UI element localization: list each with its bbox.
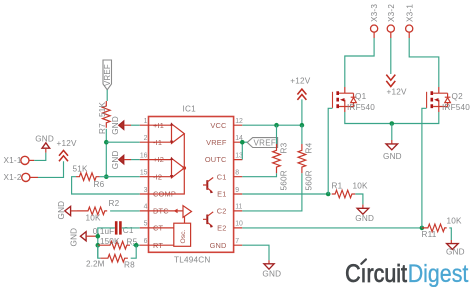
ground GND at R1 [355,205,374,224]
svg-text:10K: 10K [447,216,463,225]
ground GND at X1-1 [35,134,54,152]
svg-text:R1: R1 [332,182,343,191]
junction R4 top / +12V [300,123,305,128]
svg-text:GND: GND [262,270,281,279]
IC U1 TL494CN box [149,105,234,265]
wire X3-2 to +12V [390,38,392,74]
wire X3-1 to Q2 drain [409,38,439,87]
svg-text:560R: 560R [280,170,289,190]
pin numbers right [235,118,243,245]
svg-text:+12V: +12V [387,88,407,97]
wire pin7 GND [242,245,269,260]
svg-text:9: 9 [235,187,239,194]
svg-text:IC1: IC1 [183,105,197,114]
svg-text:R6: R6 [94,180,105,189]
junction R3 top [274,123,279,128]
pin stubs right [234,125,243,245]
transistor T1 (inside IC, C1/E1) [203,178,213,194]
svg-text:51K: 51K [98,101,107,117]
svg-text:GND: GND [35,134,54,143]
wire X1-2 to +12V [38,161,64,177]
pin numbers left [140,118,148,245]
junction R5/R8 left [96,243,101,248]
ground GND at pin1 [111,116,131,135]
svg-text:X1-1: X1-1 [4,156,22,165]
ground GND at R2 [57,201,77,220]
wire C1 right to pin5 CT [122,227,140,229]
svg-text:4: 4 [144,204,148,211]
svg-text:X3-1: X3-1 [405,4,414,22]
wire pin9 E1 row [242,193,328,195]
svg-text:1: 1 [144,118,148,125]
ground GND at pin7 [262,260,281,278]
wire pin2 [106,141,140,143]
DTC comparator (inside IC) [149,206,192,224]
svg-text:7: 7 [235,238,239,245]
op-amp comparator 1 (inside IC) [149,122,185,143]
wire R8 right riser [131,245,137,258]
svg-text:GND: GND [355,214,374,223]
svg-text:X3-3: X3-3 [370,4,379,22]
svg-text:GND: GND [57,201,66,220]
junction pin9 / R1 / gate riser [326,192,331,197]
wire VREF tag to R7 [106,90,108,101]
resistor R3 560R vertical [273,125,289,190]
svg-text:R4: R4 [305,142,314,153]
wire R11 right to GND [449,228,451,240]
svg-text:Cırcuit: Cırcuit [345,259,407,287]
connector X1-1 [4,156,35,165]
svg-text:GND: GND [383,152,402,161]
svg-text:8: 8 [235,170,239,177]
junction node pin2 [104,140,109,145]
svg-text:C1: C1 [217,172,227,181]
wire pin15 [106,176,140,178]
svg-text:GND: GND [210,241,227,250]
wire VCC rail pin12 [242,124,302,126]
svg-text:VREF: VREF [254,139,277,148]
svg-text:GND: GND [70,228,79,247]
svg-text:12: 12 [235,118,243,125]
svg-text:VCC: VCC [210,121,227,130]
svg-text:R7: R7 [98,123,107,134]
wire C1 left to GND column [98,228,115,258]
junction node pin15 / R6 [104,174,109,179]
junction GND stub [96,234,101,239]
svg-text:GND: GND [111,150,120,169]
supply +12V at VCC [290,77,310,100]
svg-text:VREF: VREF [103,64,112,86]
connector X1-2 [4,173,39,182]
net label VREF (left tag) [103,60,112,90]
svg-text:15: 15 [140,170,148,177]
logo CircuitDigest [345,259,469,287]
junction source rail GND [390,121,395,126]
wire GND stub from rail [391,124,393,141]
resistor R6 51K [73,165,105,190]
junction comparator 2 output [183,166,187,170]
wire Q2 gate riser [422,108,427,228]
wire R6 left down to COMP pin3 [72,177,140,194]
svg-text:10: 10 [235,221,243,228]
supply +12V below X3-2 [386,75,407,97]
ground GND at C1/R5/R8 [70,228,98,247]
supply +12V at X1-2 [57,139,77,161]
wire Q1 gate riser [328,108,332,194]
pin names right [205,121,227,250]
connector X3-3 [370,4,379,38]
svg-text:16: 16 [140,152,148,159]
wire R1 right to GND [355,194,363,205]
svg-text:3: 3 [144,187,148,194]
wire R2 to pin4 DTC [110,210,140,212]
svg-text:R2: R2 [109,199,120,208]
wire X3-3 to Q1 drain [345,38,374,87]
transistor T2 (inside IC, C2/E2) [203,212,213,228]
transistor Q2 IRF540 [427,87,471,112]
logo accent over i [361,259,366,263]
svg-text:6: 6 [144,238,148,245]
resistor R11 10K [422,216,463,239]
resistor R4 560R vertical [298,125,313,190]
svg-text:5: 5 [144,221,148,228]
wire pin1 [131,124,140,126]
svg-text:Osc.: Osc. [180,229,187,243]
wire R5 right to pin6 RT [133,244,140,246]
svg-text:R8: R8 [124,260,135,269]
wire R8 left riser [98,245,101,258]
wire pin14 to tag and down to pin13 [242,142,247,159]
junction pin14 [240,140,245,145]
svg-text:VREF: VREF [206,138,227,147]
wire R6 right to junction [100,176,107,178]
svg-text:TL494CN: TL494CN [174,256,210,265]
svg-text:GND: GND [111,116,120,135]
pin stubs left [140,125,149,245]
svg-text:IRF540: IRF540 [347,103,375,112]
wire pin10 E2 row [242,227,422,229]
svg-text:51K: 51K [73,165,89,174]
svg-text:X1-2: X1-2 [4,173,22,182]
svg-text:2: 2 [144,135,148,142]
ground GND below source rail [383,140,402,161]
resistor R2 10K [77,199,120,222]
wire +12V riser [301,99,303,125]
junction pin10 / R11 / Q2 gate riser [420,226,425,231]
svg-text:11: 11 [235,204,242,211]
resistor R1 10K [332,182,369,198]
junction R5/R8 right [134,243,139,248]
svg-text:Digest: Digest [408,259,469,287]
resistor R5 150K [98,237,138,249]
resistor R7 51K vertical [98,101,110,134]
net label VREF (tag at pin14) [247,138,277,148]
svg-text:C2: C2 [217,207,227,216]
svg-text:R3: R3 [280,142,289,153]
pin names left [153,121,176,250]
ground GND at pin16 [111,150,131,169]
resistor R8 2.2M [86,254,135,269]
wire source rail Q1/Q2 [345,112,439,124]
wire R3 bottom to pin8 [242,173,276,176]
svg-text:IRF540: IRF540 [442,103,470,112]
oscillator Osc box (inside IC) [149,223,191,246]
svg-text:E1: E1 [217,190,226,199]
svg-text:OUTC: OUTC [205,155,227,164]
svg-text:R11: R11 [422,230,437,239]
op-amp comparator 2 (inside IC) [149,157,185,179]
svg-text:10K: 10K [353,182,369,191]
svg-text:X3-2: X3-2 [387,4,396,22]
svg-text:Q1: Q1 [355,92,367,101]
svg-text:+12V: +12V [290,77,310,86]
wire R4 bottom to pin11 [242,173,302,211]
wire comparator outputs to COMP [149,134,185,194]
svg-text:560R: 560R [305,170,314,190]
transistor Q1 IRF540 [333,87,376,112]
svg-text:GND: GND [446,248,465,257]
svg-text:Q2: Q2 [452,92,464,101]
wire divider column pin2/pin15 [105,129,107,177]
svg-text:10K: 10K [86,213,102,222]
wire X1-1 to GND [34,153,46,161]
wire pin16 [131,159,140,161]
svg-text:+12V: +12V [57,139,77,148]
svg-text:E2: E2 [217,224,226,233]
svg-text:2.2M: 2.2M [86,259,105,268]
capacitor C1 0.1uF [93,221,134,236]
svg-text:150K: 150K [100,237,120,246]
ground GND at R11 [446,240,465,257]
connector X3-1 [405,4,414,38]
connector X3-2 [387,4,396,38]
